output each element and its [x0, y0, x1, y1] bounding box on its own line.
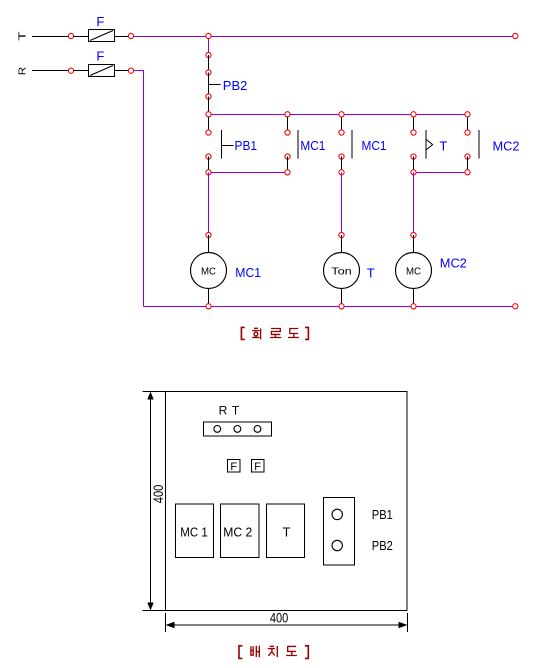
wire T rail to fuse [74, 36, 90, 38]
svg-text:F: F [230, 461, 237, 473]
label MC1 (timer branch contact) [362, 138, 387, 153]
svg-text:MC 2: MC 2 [223, 524, 252, 539]
svg-text:PB2: PB2 [223, 78, 248, 93]
wire PB1 lower stub [208, 157, 210, 173]
node after fuse R rail [128, 68, 133, 73]
svg-text:MC2: MC2 [440, 256, 467, 271]
fuse F2 (layout) [252, 460, 265, 473]
node terminal on T rail [68, 33, 73, 38]
fuse F1 (layout) [228, 460, 241, 473]
svg-text:F: F [96, 49, 104, 64]
svg-text:T: T [17, 30, 29, 40]
fuse F (R rail) [89, 65, 115, 77]
svg-text:MC 1: MC 1 [180, 524, 208, 539]
label timer coil Ton [367, 265, 375, 280]
label R (terminal) [219, 404, 228, 418]
coil coil MC1 [191, 253, 227, 289]
node PB1 row junction [206, 112, 211, 117]
contact PB1 [222, 130, 234, 159]
timer T (layout) [267, 504, 305, 558]
node coil MC1 feed [206, 232, 211, 237]
label PB1 [235, 138, 258, 153]
svg-text:MC: MC [201, 265, 216, 277]
node T rail right end [513, 33, 518, 38]
wire T rail black left [32, 36, 69, 38]
label 400 (vertical) [151, 485, 166, 504]
node T timer pin 2 [411, 154, 416, 159]
label PB2 [223, 78, 248, 93]
label 400 (horizontal) [270, 611, 288, 626]
node bottom bus right end [513, 304, 518, 309]
svg-text:R: R [219, 404, 228, 418]
node R (rail label) [17, 66, 29, 75]
wire row bus purple [209, 114, 468, 116]
svg-text:PB1: PB1 [235, 138, 258, 153]
contact MC1 holding [297, 130, 299, 159]
wire MC1 timer-branch upper stub [341, 115, 343, 133]
wire PB1 upper stub [208, 115, 210, 133]
node T (rail label) [17, 30, 29, 40]
wire coil MC2 top lead [413, 235, 415, 253]
wire PB2 to row bus [208, 97, 210, 115]
node MC2 pin 2 [465, 154, 470, 159]
svg-text:400: 400 [151, 485, 166, 504]
label F (T rail fuse) [96, 14, 104, 29]
node MC1 holding pin 2 [285, 154, 290, 159]
node PB1 pin 2 [206, 154, 211, 159]
wire MC1 holding upper stub [287, 115, 289, 133]
wire T rail purple [134, 36, 514, 38]
node terminal on R rail [68, 68, 73, 73]
wire MC2 upper stub [467, 115, 469, 133]
node coil MC2 feed [411, 232, 416, 237]
wire timer coil Ton top lead [341, 235, 343, 253]
svg-text:F: F [96, 14, 104, 29]
label MC2 (contact) [493, 138, 520, 153]
coil timer coil Ton [324, 253, 360, 289]
node holding loop right [285, 170, 290, 175]
label MC1 (holding contact) [300, 138, 325, 153]
node after fuse T rail [128, 33, 133, 38]
node coil MC1 to bus [206, 304, 211, 309]
label F (R rail fuse) [96, 49, 104, 64]
wire MC1 holding lower stub [287, 157, 289, 173]
wire timer coil Ton bottom lead [341, 289, 343, 307]
title layout diagram [bae-chi-do] [239, 646, 308, 659]
wire junction drop purple [208, 37, 210, 56]
wire MC2 lower stub [467, 157, 469, 173]
contact MC2 [478, 130, 480, 159]
wire coil MC2 drop purple [413, 173, 415, 236]
svg-text:R: R [17, 66, 29, 75]
wire holding loop purple [209, 172, 288, 174]
node T/MC2 loop left [411, 170, 416, 175]
title circuit diagram [hoe-ro-do] [241, 327, 308, 339]
node MC1 timer-branch row junction [339, 112, 344, 117]
node holding loop left [206, 170, 211, 175]
wire timer coil Ton drop purple [341, 173, 343, 236]
node coil MC2 to bus [411, 304, 416, 309]
wire R rail black left [32, 70, 69, 72]
node PB2 pin 1 [206, 70, 211, 75]
node T timer pin 1 [411, 130, 416, 135]
pushbutton PB2 (NC contact) [209, 73, 221, 97]
label coil MC1 [235, 265, 261, 280]
node MC2 pin 1 [465, 130, 470, 135]
wire bottom bus purple [144, 306, 514, 308]
node T/MC2 loop right [465, 170, 470, 175]
node MC1 holding row junction [285, 112, 290, 117]
svg-text:MC1: MC1 [235, 265, 261, 280]
wire T/MC2 loop purple [414, 172, 468, 174]
node timer coil Ton feed [339, 232, 344, 237]
svg-text:MC1: MC1 [362, 138, 387, 153]
contact MC1 timer-branch [351, 130, 353, 159]
wire fuse to node (R rail) [115, 70, 129, 72]
label T (terminal) [232, 404, 240, 418]
wire T timer lower stub [413, 157, 415, 173]
svg-text:F: F [254, 461, 261, 473]
svg-text:PB2: PB2 [372, 539, 393, 553]
node timer coil Ton to bus [339, 304, 344, 309]
dimension 400 horizontal [166, 613, 408, 632]
svg-text:PB1: PB1 [372, 508, 393, 522]
wire R rail purple to left bus [134, 71, 144, 307]
node MC1 timer-branch pin 1 [339, 130, 344, 135]
node MC1 holding pin 1 [285, 130, 290, 135]
node MC2 row junction [465, 112, 470, 117]
label PB1 (layout) [372, 508, 393, 522]
node PB2 feed [206, 52, 211, 57]
contactor MC 2 (layout) [221, 504, 260, 558]
wire coil MC1 drop purple [208, 173, 210, 236]
wire coil MC2 bottom lead [413, 289, 415, 307]
coil coil MC2 [396, 253, 432, 289]
node T timer row junction [411, 112, 416, 117]
wire feed to PB2 [208, 55, 210, 73]
wire fuse to node (T rail) [115, 36, 129, 38]
wire T timer upper stub [413, 115, 415, 133]
wire R rail to fuse [74, 70, 90, 72]
svg-text:400: 400 [270, 611, 288, 626]
pushbutton box (layout) [324, 498, 355, 566]
wire coil MC1 bottom lead [208, 289, 210, 307]
svg-text:MC: MC [406, 265, 421, 277]
svg-text:T: T [283, 524, 291, 539]
node PB2 pin 2 [206, 94, 211, 99]
wire MC1 timer-branch lower stub [341, 157, 343, 173]
wire coil MC1 top lead [208, 235, 210, 253]
label T (timer contact) [439, 138, 447, 153]
contact T timer [426, 130, 433, 159]
svg-text:MC2: MC2 [493, 138, 520, 153]
dimension 400 vertical [143, 392, 166, 611]
node PB1 pin 1 [206, 130, 211, 135]
svg-text:T: T [367, 265, 375, 280]
node MC1 timer-branch pin 2 [339, 154, 344, 159]
panel outline (layout diagram) [166, 392, 408, 611]
svg-text:MC1: MC1 [300, 138, 325, 153]
fuse F (T rail) [89, 30, 115, 42]
terminal strip [204, 422, 272, 436]
svg-text:Ton: Ton [331, 265, 352, 277]
label PB2 (layout) [372, 539, 393, 553]
svg-text:T: T [439, 138, 447, 153]
label coil MC2 [440, 256, 467, 271]
svg-text:T: T [232, 404, 240, 418]
contactor MC 1 (layout) [176, 504, 214, 558]
node T rail junction [206, 33, 211, 38]
node MC1 timer-branch lower [339, 170, 344, 175]
